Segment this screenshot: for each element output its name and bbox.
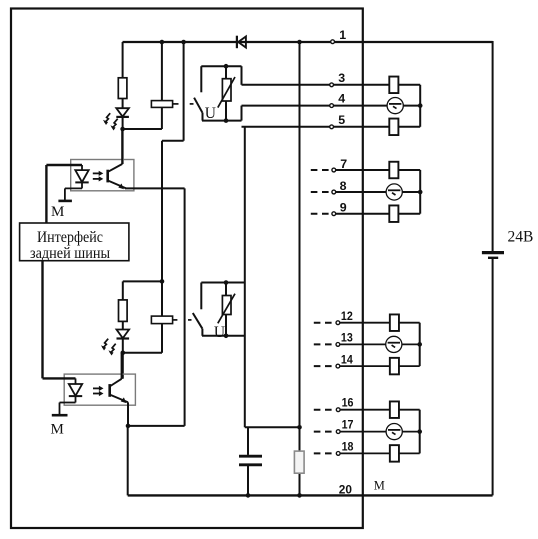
svg-text:20: 20 [339,482,352,496]
svg-text:24В: 24В [508,228,534,245]
svg-text:Интерфейс: Интерфейс [37,229,103,246]
svg-text:U: U [214,324,225,341]
svg-text:17: 17 [342,418,354,432]
svg-text:3: 3 [338,71,345,85]
svg-text:18: 18 [342,440,354,454]
svg-text:задней шины: задней шины [30,245,110,262]
svg-text:9: 9 [340,201,347,215]
svg-text:4: 4 [338,92,345,106]
svg-text:7: 7 [340,157,347,171]
svg-text:М: М [51,422,64,438]
svg-text:8: 8 [340,179,347,193]
svg-text:13: 13 [341,331,353,345]
svg-text:12: 12 [341,309,353,323]
svg-text:U: U [205,105,216,122]
svg-text:14: 14 [341,352,353,366]
svg-text:1: 1 [339,28,346,42]
svg-text:М: М [374,479,385,493]
svg-text:16: 16 [342,396,354,410]
svg-text:М: М [51,204,64,220]
svg-text:5: 5 [338,113,345,127]
